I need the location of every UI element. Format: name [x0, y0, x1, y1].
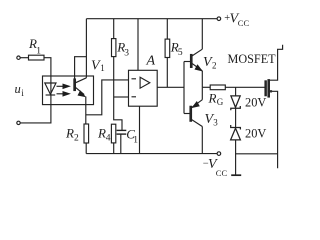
svg-text:R: R	[97, 126, 106, 141]
svg-text:R: R	[65, 126, 74, 141]
svg-text:4: 4	[106, 134, 111, 144]
svg-text:G: G	[217, 97, 224, 107]
svg-text:CC: CC	[216, 168, 228, 178]
svg-text:3: 3	[124, 48, 129, 58]
svg-text:u: u	[15, 82, 21, 96]
svg-text:1: 1	[100, 63, 105, 73]
svg-text:1: 1	[133, 135, 138, 145]
svg-text:R: R	[208, 90, 217, 105]
svg-text:5: 5	[178, 48, 183, 58]
svg-text:20V: 20V	[245, 95, 266, 109]
svg-text:MOSFET: MOSFET	[228, 52, 277, 66]
svg-text:A: A	[146, 53, 156, 68]
svg-text:1: 1	[36, 46, 41, 56]
svg-text:2: 2	[212, 60, 217, 70]
svg-text:i: i	[21, 88, 24, 98]
svg-text:CC: CC	[238, 18, 250, 28]
svg-text:2: 2	[74, 134, 79, 144]
svg-text:20V: 20V	[245, 126, 266, 140]
svg-text:3: 3	[213, 117, 218, 127]
